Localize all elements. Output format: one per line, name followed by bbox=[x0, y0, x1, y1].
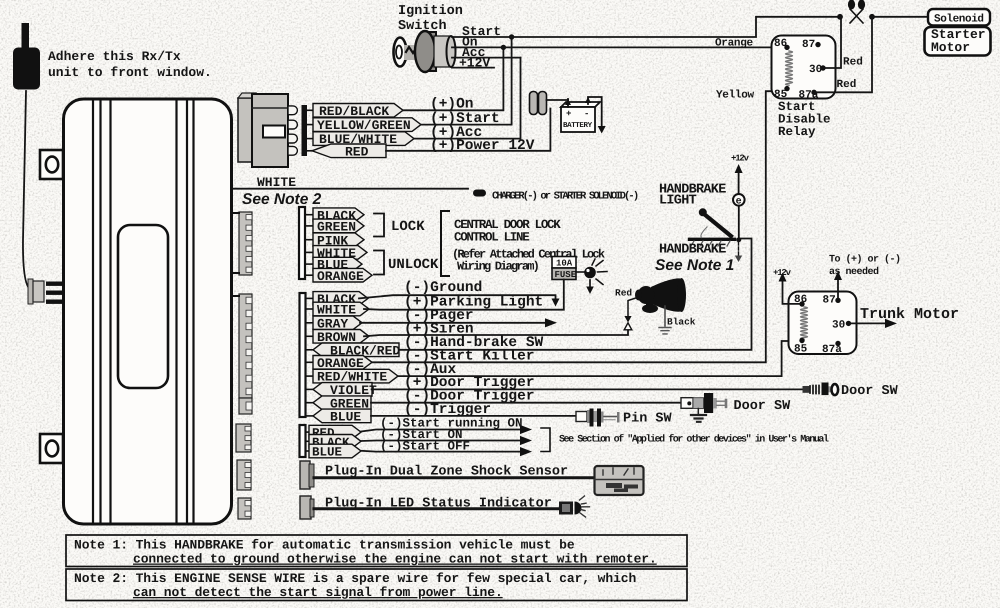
svg-text:Plug-In LED Status Indicator: Plug-In LED Status Indicator bbox=[325, 497, 552, 512]
svg-text:LIGHT: LIGHT bbox=[659, 194, 697, 209]
svg-text:Note 1: This HANDBRAKE for aut: Note 1: This HANDBRAKE for automatic tra… bbox=[74, 538, 575, 553]
svg-text:(-)Start OFF: (-)Start OFF bbox=[380, 439, 470, 453]
svg-text:Motor: Motor bbox=[931, 40, 970, 55]
svg-text:HANDBRAKE: HANDBRAKE bbox=[659, 243, 726, 258]
svg-text:To (+) or (-): To (+) or (-) bbox=[829, 254, 901, 266]
svg-text:Plug-In Dual Zone Shock Sensor: Plug-In Dual Zone Shock Sensor bbox=[325, 465, 568, 480]
svg-text:RED: RED bbox=[345, 144, 369, 159]
svg-text:can not detect the start signa: can not detect the start signal from pow… bbox=[133, 585, 503, 600]
svg-text:CHARGER(-) or STARTER SOLENOID: CHARGER(-) or STARTER SOLENOID(-) bbox=[492, 191, 638, 203]
svg-text:Pin SW: Pin SW bbox=[623, 412, 673, 427]
svg-text:Solenoid: Solenoid bbox=[934, 14, 984, 26]
svg-text:+: + bbox=[566, 109, 571, 119]
svg-text:RED/BLACK: RED/BLACK bbox=[319, 104, 389, 119]
svg-text:Door SW: Door SW bbox=[734, 399, 792, 414]
svg-text:as needed: as needed bbox=[829, 266, 879, 278]
svg-text:Red: Red bbox=[615, 288, 632, 299]
svg-text:Black: Black bbox=[667, 317, 696, 328]
svg-text:CONTROL LINE: CONTROL LINE bbox=[454, 231, 529, 245]
svg-text:FUSE: FUSE bbox=[555, 270, 577, 280]
svg-text:86: 86 bbox=[774, 38, 787, 50]
svg-text:Relay: Relay bbox=[778, 125, 816, 139]
svg-text:Door SW: Door SW bbox=[841, 384, 899, 399]
svg-text:87a: 87a bbox=[822, 344, 842, 356]
svg-text:BATTERY: BATTERY bbox=[563, 122, 593, 130]
svg-text:WHITE: WHITE bbox=[257, 175, 296, 190]
svg-text:10A: 10A bbox=[556, 259, 573, 269]
svg-text:(+)Power 12V: (+)Power 12V bbox=[430, 138, 535, 154]
svg-text:See Section of "Applied for ot: See Section of "Applied for other device… bbox=[559, 434, 829, 446]
svg-text:See Note 2: See Note 2 bbox=[242, 191, 322, 208]
svg-text:BLUE: BLUE bbox=[312, 446, 342, 460]
svg-text:-: - bbox=[584, 109, 589, 119]
svg-text:BLUE: BLUE bbox=[330, 410, 361, 425]
svg-text:LOCK: LOCK bbox=[391, 219, 425, 235]
svg-text:Note 2: This ENGINE SENSE WIRE: Note 2: This ENGINE SENSE WIRE is a spar… bbox=[74, 571, 636, 586]
svg-text:30: 30 bbox=[809, 64, 822, 76]
svg-text:Red: Red bbox=[843, 57, 863, 69]
svg-text:Yellow: Yellow bbox=[716, 90, 755, 102]
svg-text:Orange: Orange bbox=[715, 38, 754, 50]
svg-text:ORANGE: ORANGE bbox=[317, 269, 364, 284]
svg-text:85: 85 bbox=[794, 344, 808, 356]
svg-text:connected to ground otherwise: connected to ground otherwise the engine… bbox=[133, 552, 657, 567]
svg-text:30: 30 bbox=[832, 320, 845, 332]
svg-text:+12v: +12v bbox=[731, 154, 750, 164]
svg-text:87: 87 bbox=[823, 295, 836, 307]
svg-text:87: 87 bbox=[802, 39, 815, 51]
svg-text:Ignition: Ignition bbox=[398, 4, 463, 19]
svg-text:UNLOCK: UNLOCK bbox=[388, 257, 439, 273]
svg-text:unit to front window.: unit to front window. bbox=[48, 65, 212, 80]
svg-text:Red: Red bbox=[837, 79, 857, 91]
svg-text:Adhere this Rx/Tx: Adhere this Rx/Tx bbox=[48, 49, 181, 64]
svg-text:YELLOW/GREEN: YELLOW/GREEN bbox=[317, 118, 411, 133]
svg-text:Wiring Diagram): Wiring Diagram) bbox=[457, 260, 539, 274]
svg-text:(-)Trigger: (-)Trigger bbox=[404, 402, 491, 418]
svg-text:See Note 1: See Note 1 bbox=[655, 257, 734, 274]
svg-text:Trunk Motor: Trunk Motor bbox=[860, 306, 959, 323]
